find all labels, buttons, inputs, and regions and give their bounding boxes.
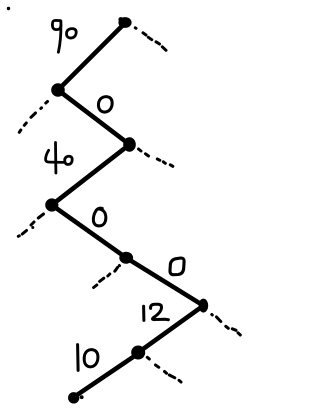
edge N1-N2 (weight 90)	[58, 23, 125, 90]
label 10 on edge N7-N8	[78, 345, 98, 371]
node N8	[68, 392, 84, 403]
dotted branch from node N1	[135, 28, 166, 51]
node N1	[118, 17, 131, 28]
label 0 on edge N5-N6	[170, 258, 184, 275]
dotted branch from node N5	[94, 266, 120, 288]
label 0 on edge N2-N3	[98, 97, 112, 112]
stray dot top-left	[7, 7, 10, 10]
edge N5-N6 (weight 0)	[126, 258, 203, 306]
edge N3-N4 (weight 40)	[52, 145, 130, 206]
edge N6-N7 (weight 12)	[138, 306, 203, 353]
node N2	[51, 83, 65, 97]
label 90 on edge N1-N2	[52, 20, 76, 52]
node N7	[131, 346, 145, 360]
dotted branch from node N7	[147, 357, 181, 382]
dotted branch from node N3	[139, 149, 173, 166]
node N4	[45, 198, 58, 211]
dotted branch from node N6	[212, 315, 241, 336]
dotted branch from node N2	[19, 102, 47, 133]
dotted branch from node N4	[18, 214, 43, 236]
edge N2-N3 (weight 0)	[58, 90, 130, 145]
label 12 on edge N6-N7	[144, 304, 169, 320]
label 40 on edge N3-N4	[46, 143, 73, 174]
node N3	[123, 137, 136, 152]
label 0 on edge N4-N5	[93, 208, 106, 226]
edge N4-N5 (weight 0)	[52, 205, 126, 258]
edge N7-N8 (weight 10)	[74, 355, 136, 397]
node N6	[199, 299, 209, 313]
node N5	[119, 252, 133, 264]
